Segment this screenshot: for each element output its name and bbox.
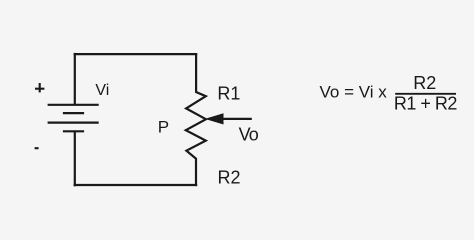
- svg-text:R1 + R2: R1 + R2: [394, 94, 458, 114]
- svg-text:Vi: Vi: [95, 82, 109, 99]
- svg-text:P: P: [158, 118, 169, 137]
- svg-text:R2: R2: [413, 73, 436, 93]
- svg-text:R2: R2: [218, 168, 241, 188]
- svg-text:R1: R1: [217, 83, 240, 103]
- svg-text:Vo: Vo: [239, 125, 259, 145]
- svg-text:Vo = Vi x: Vo = Vi x: [320, 83, 388, 102]
